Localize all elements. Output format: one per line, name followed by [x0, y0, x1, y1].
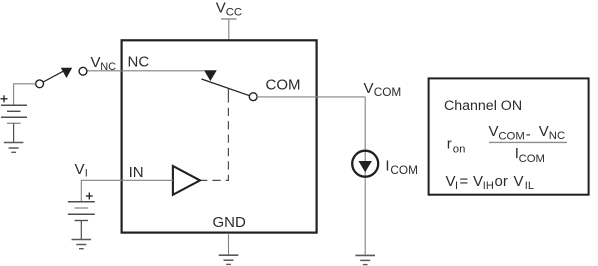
wire battery V2 negative to ground	[80, 221, 82, 240]
wire V_COM down through current source to ground	[364, 97, 366, 255]
svg-text:COM: COM	[266, 77, 301, 94]
dashed control line from buffer to switch lever	[201, 108, 229, 181]
switch S1 lever	[42, 71, 63, 82]
switch S1 arrowhead	[61, 68, 72, 78]
svg-text:Channel ON: Channel ON	[444, 98, 522, 114]
svg-text:I: I	[385, 158, 389, 175]
wire U1 GND pin to ground	[228, 233, 230, 255]
svg-text:V: V	[514, 173, 524, 190]
current source I_COM arrow	[359, 161, 372, 172]
svg-text:NC: NC	[549, 130, 565, 142]
svg-text:V: V	[473, 173, 483, 190]
svg-text:COM: COM	[498, 130, 524, 142]
svg-text:=: =	[460, 173, 469, 190]
svg-text:IH: IH	[483, 180, 494, 192]
svg-text:NC: NC	[128, 54, 150, 71]
svg-text:V: V	[91, 54, 101, 71]
internal switch arrowhead (NC contact)	[204, 70, 217, 81]
wire VCC bar to U1 VCC pin	[228, 20, 230, 40]
ground under U1 GND pin	[219, 255, 239, 264]
svg-text:GND: GND	[213, 214, 247, 231]
battery V1 plus sign	[1, 95, 8, 102]
annotation r_on symbol	[447, 136, 466, 156]
svg-text:COM: COM	[390, 163, 418, 177]
node V_NC label	[91, 54, 117, 73]
wire NC net: V_NC terminal into U1 to switch contact	[87, 70, 204, 72]
battery V1 (V_NC bias source)	[1, 105, 27, 123]
svg-text:V: V	[489, 123, 499, 140]
annotation fraction bar	[489, 141, 567, 143]
svg-text:I: I	[85, 168, 88, 180]
internal switch COM pole circle	[249, 93, 257, 101]
wire IN net: battery V2 to buffer input	[81, 180, 173, 201]
ground under current source I_COM	[355, 255, 375, 264]
dashed control line solid stub at switch lever	[227, 89, 229, 103]
svg-text:I: I	[455, 180, 458, 192]
internal switch lever to COM pole	[202, 79, 252, 96]
annotation fraction numerator V_COM - V_NC	[489, 123, 566, 143]
svg-text:COM: COM	[519, 153, 545, 165]
annotation fraction denominator I_COM	[515, 145, 545, 165]
svg-text:V: V	[446, 173, 456, 190]
svg-text:IN: IN	[129, 164, 144, 181]
wire COM net: COM pole through U1 edge to V_COM corner	[257, 96, 365, 98]
IC box U1 (device under test)	[122, 40, 317, 232]
svg-text:V: V	[216, 0, 226, 16]
node V_NC terminal circle	[79, 67, 87, 75]
wire battery V1 negative to ground	[13, 123, 15, 142]
node V_COM label	[364, 80, 402, 99]
ground under battery V1	[4, 143, 24, 153]
annotation box (Channel ON conditions)	[429, 78, 589, 194]
ground under battery V2	[72, 240, 92, 249]
annotation condition V_I = V_IH or V_IL	[446, 173, 534, 192]
node V_I label	[75, 161, 88, 180]
switch S1 pole terminal circle	[36, 80, 44, 88]
svg-text:r: r	[447, 136, 452, 153]
wire battery V1 positive to switch S1 pole	[14, 84, 36, 105]
svg-text:IL: IL	[525, 180, 534, 192]
battery V2 plus sign	[86, 193, 93, 200]
power VCC label	[216, 0, 242, 19]
svg-text:CC: CC	[226, 7, 242, 19]
driver buffer triangle	[173, 166, 200, 195]
current source I_COM circle	[352, 151, 378, 177]
svg-text:-: -	[526, 126, 531, 143]
battery V2 (V_I source)	[68, 202, 95, 221]
current source I_COM label	[385, 158, 418, 177]
svg-text:V: V	[364, 80, 374, 97]
svg-text:V: V	[539, 123, 549, 140]
svg-text:COM: COM	[374, 85, 402, 99]
power VCC terminal bar	[221, 18, 237, 20]
svg-text:on: on	[453, 144, 466, 156]
svg-text:V: V	[75, 161, 85, 178]
svg-text:or: or	[495, 173, 508, 190]
